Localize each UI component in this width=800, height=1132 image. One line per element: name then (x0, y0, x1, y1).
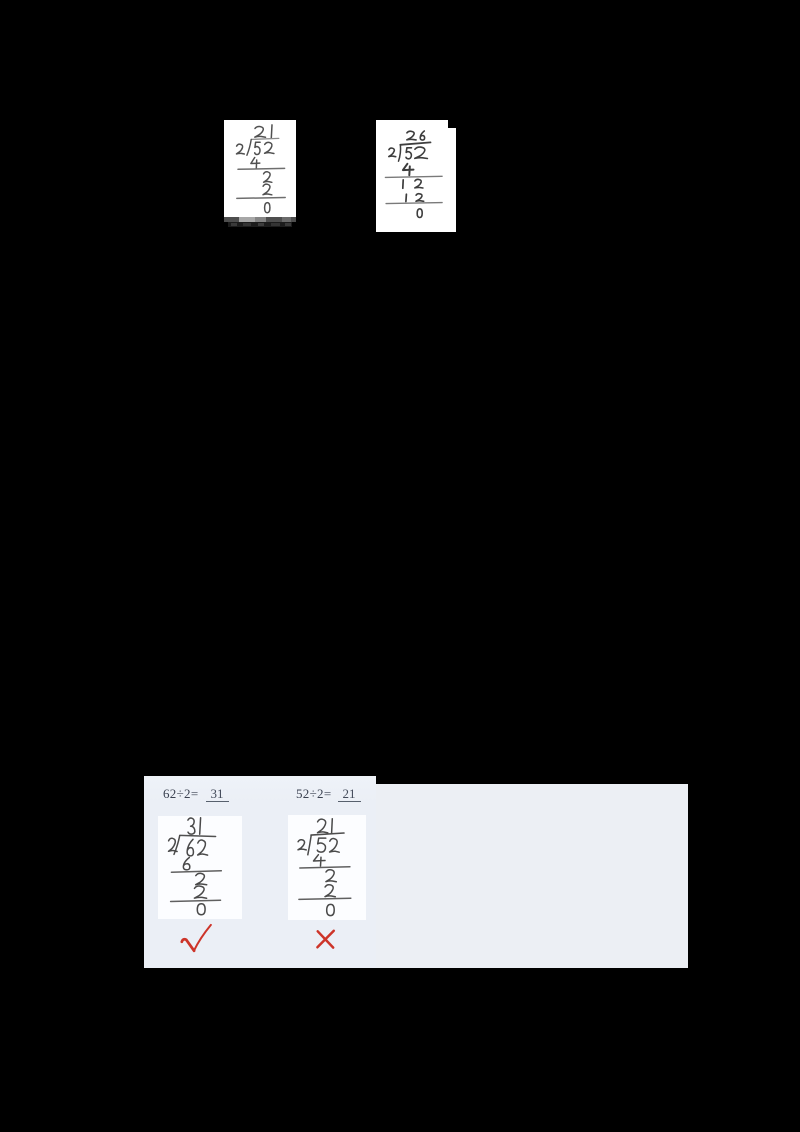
division bracket (top-right card) (399, 145, 401, 161)
answer box 1 (158, 816, 242, 919)
final remainder 0 (top-right card) (417, 209, 422, 218)
divisor digit 2 (top-left card) (237, 144, 245, 154)
bottom panel right section (376, 784, 689, 969)
partial product 4 (answer box 2) (314, 855, 326, 866)
quotient digit 3 (answer box 1) (188, 818, 195, 834)
subtraction rule 2 (top-left card) (237, 197, 285, 200)
subtraction rule 1 (top-right card) (385, 176, 442, 177)
caption text remnants row (228, 222, 292, 227)
quotient digit 1 (answer box 2) (331, 819, 334, 834)
caption remnant blob 2 (243, 223, 251, 226)
caption remnant blob 3 (258, 223, 264, 226)
dividend digit 2 (top-left card) (265, 142, 274, 153)
dividend digit 5 (answer box 2) (317, 838, 326, 852)
answer text 31 underlined (206, 786, 229, 802)
dividend digit 2 (answer box 2) (330, 839, 340, 853)
dividend digit 5 (top-right card) (406, 148, 412, 159)
red check mark (answer box 1) (182, 925, 211, 951)
divisor digit 2 (answer box 2) (298, 840, 306, 850)
problem text 52 div 2 (296, 786, 331, 802)
brought-down digit 2 (answer box 1) (194, 886, 206, 898)
brought-down digit 2 (top-left card) (263, 184, 272, 195)
caption band light patch 1 (239, 217, 256, 223)
subtraction rule 2 (top-right card) (386, 203, 442, 204)
division vinculum (answer box 2) (311, 833, 344, 835)
top-right card right strip (448, 128, 457, 233)
subtraction rule 1 (answer box 2) (300, 867, 350, 868)
answer text 21 underlined (338, 786, 361, 802)
bottom panel left section (144, 776, 376, 969)
partial product 4 (top-right card) (403, 164, 414, 175)
division bracket (answer box 2) (308, 835, 311, 855)
remainder digit 1 (top-right card) (402, 180, 404, 189)
division bracket (top-left card) (247, 140, 251, 156)
remainder digit 2 (answer box 2) (326, 870, 336, 882)
second product digit 1 (top-right card) (405, 194, 408, 201)
divisor digit 2 (answer box 1) (169, 838, 178, 851)
brought-down digit 2 (answer box 2) (325, 885, 335, 897)
dividend digit 6 (answer box 1) (187, 839, 193, 856)
subtraction rule 2 (answer box 2) (299, 898, 351, 899)
caption band light patch 2 (255, 217, 266, 223)
final remainder 0 (answer box 1) (197, 904, 205, 915)
second product digit 2 (top-right card) (416, 194, 424, 202)
dividend digit 2 (top-right card) (415, 147, 428, 158)
partial product 6 (answer box 1) (183, 858, 189, 870)
quotient digit 2 (top-right card) (407, 131, 416, 140)
divisor digit 2 (top-right card) (389, 148, 396, 157)
caption remnant blob 1 (231, 223, 237, 226)
partial product 4 (top-left card) (251, 158, 260, 169)
caption band under top-left card (224, 217, 296, 223)
final remainder 0 (answer box 2) (327, 904, 335, 915)
subtraction rule 2 (answer box 1) (171, 900, 221, 901)
problem text 62 div 2 (163, 786, 198, 802)
subtraction rule 1 (top-left card) (238, 167, 285, 170)
quotient digit 1 (top-left card) (270, 125, 273, 138)
caption remnant blob 5 (285, 223, 291, 226)
quotient digit 2 (answer box 2) (318, 819, 328, 833)
remainder digit 2 (top-left card) (264, 172, 272, 183)
division bracket (answer box 1) (174, 836, 180, 855)
remainder digit 2 (answer box 1) (196, 873, 207, 884)
answer box 2 (288, 815, 365, 920)
top-left worksheet card (224, 120, 296, 217)
final remainder 0 (top-left card) (265, 203, 270, 213)
quotient digit 6 (top-right card) (420, 131, 424, 140)
dividend digit 5 (top-left card) (255, 142, 260, 154)
division vinculum (top-right card) (400, 142, 430, 144)
division vinculum (top-left card) (252, 138, 279, 139)
top-right worksheet card (376, 120, 448, 233)
quotient digit 2 (top-left card) (255, 126, 266, 137)
caption remnant blob 4 (271, 223, 280, 226)
remainder digit 2 (top-right card) (415, 179, 423, 188)
dividend digit 2 (answer box 1) (198, 840, 208, 855)
red cross mark (answer box 2) (317, 931, 333, 948)
division vinculum (answer box 1) (180, 835, 216, 836)
quotient digit 1 (answer box 1) (199, 818, 202, 834)
caption band light patch 3 (282, 217, 292, 223)
subtraction rule 1 (answer box 1) (171, 871, 221, 872)
